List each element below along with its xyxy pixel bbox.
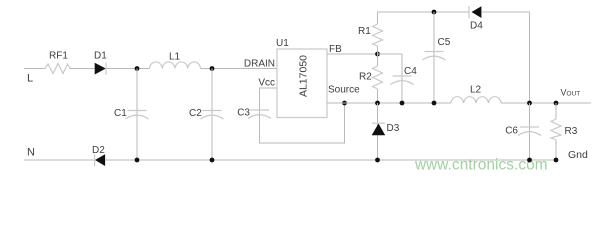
wire right drop to VOUT rail bbox=[529, 12, 531, 103]
resistor RF1 bbox=[45, 64, 70, 74]
svg-text:R1: R1 bbox=[358, 26, 371, 37]
junction dot C4 bottom bbox=[400, 101, 405, 106]
D3 cathode bar bbox=[372, 122, 385, 124]
capacitor C2 bbox=[201, 111, 224, 120]
resistor R3 bbox=[551, 119, 561, 140]
svg-text:U1: U1 bbox=[276, 38, 289, 49]
junction dot C5 bottom bbox=[432, 101, 437, 106]
svg-text:DRAIN: DRAIN bbox=[244, 59, 275, 70]
svg-text:Source: Source bbox=[328, 85, 360, 96]
wire L1 to DRAIN pin bbox=[201, 68, 278, 70]
capacitor C6 bbox=[518, 127, 541, 136]
junction dot C2 bottom bbox=[210, 158, 215, 163]
junction dot C1 bottom bbox=[135, 158, 140, 163]
wire FB pin to R1/R2 node bbox=[327, 53, 378, 55]
resistor R1 bbox=[373, 24, 383, 46]
D1 cathode bar bbox=[105, 63, 107, 75]
top rail D4 to right corner bbox=[481, 11, 529, 13]
svg-text:R2: R2 bbox=[359, 72, 372, 83]
junction dot C3 return on Source wire bbox=[342, 101, 347, 106]
svg-text:AL17050: AL17050 bbox=[298, 55, 310, 97]
inductor L2 bbox=[451, 97, 501, 103]
svg-text:C5: C5 bbox=[438, 37, 451, 48]
svg-text:N: N bbox=[27, 147, 35, 159]
junction dot D3 bottom bbox=[375, 158, 380, 163]
wire Source pin to L2 bbox=[327, 102, 451, 104]
svg-text:C1: C1 bbox=[114, 108, 127, 119]
capacitor C3 bbox=[248, 110, 271, 119]
resistor R1 branch wire bbox=[377, 12, 379, 24]
svg-text:D4: D4 bbox=[470, 21, 483, 32]
wire L2 to VOUT bbox=[501, 102, 591, 104]
svg-text:D3: D3 bbox=[387, 123, 400, 134]
capacitor C6 branch wire bbox=[529, 103, 531, 160]
svg-text:RF1: RF1 bbox=[49, 51, 68, 62]
D2 cathode bar bbox=[94, 154, 96, 166]
wire N to D2 bbox=[24, 159, 95, 161]
svg-text:FB: FB bbox=[329, 44, 342, 55]
inductor L1 bbox=[150, 62, 201, 69]
wire FB node to C4 bbox=[378, 54, 403, 103]
capacitor C2 branch wire bbox=[211, 69, 213, 161]
junction dot C2 top bbox=[210, 66, 215, 71]
svg-text:L2: L2 bbox=[470, 85, 482, 96]
wire D1 to L1 bbox=[106, 68, 150, 70]
svg-text:Gnd: Gnd bbox=[568, 149, 588, 161]
D4 cathode bar bbox=[468, 6, 470, 18]
capacitor C5 branch wire bbox=[433, 12, 435, 103]
svg-text:L: L bbox=[27, 73, 33, 85]
top rail from R1 to D4 bbox=[377, 11, 469, 13]
resistor R2 bbox=[373, 66, 383, 89]
junction dot FB node bbox=[375, 52, 380, 57]
op-amp U1 body bbox=[277, 49, 327, 118]
capacitor C4 bbox=[391, 76, 414, 85]
capacitor C5 bbox=[423, 52, 446, 61]
junction dot R3 bottom bbox=[554, 158, 559, 163]
svg-text:C3: C3 bbox=[237, 108, 250, 119]
resistor R3 branch wire bbox=[555, 103, 557, 119]
svg-text:Vcc: Vcc bbox=[258, 78, 275, 89]
junction dot C5 top bbox=[432, 10, 437, 15]
wire RF1 to D1 bbox=[70, 68, 95, 70]
junction dot C1 top bbox=[135, 66, 140, 71]
junction dot R3 top bbox=[554, 101, 559, 106]
resistor R2 branch wire bbox=[377, 54, 379, 66]
wire L to RF1 bbox=[24, 68, 45, 70]
diode D3 bbox=[372, 124, 386, 136]
svg-text:C2: C2 bbox=[189, 108, 202, 119]
wire D2 to Gnd rail bbox=[105, 159, 556, 161]
svg-text:C4: C4 bbox=[404, 66, 417, 77]
svg-text:C6: C6 bbox=[505, 126, 518, 137]
svg-text:R3: R3 bbox=[565, 126, 578, 137]
wire Vcc pin to C3 and around to Source bbox=[260, 88, 345, 143]
svg-text:D1: D1 bbox=[94, 51, 107, 62]
junction dot R2/D3 bbox=[375, 101, 380, 106]
svg-text:D2: D2 bbox=[92, 145, 105, 156]
diode D2 bbox=[95, 154, 105, 166]
capacitor C1 branch wire bbox=[136, 69, 138, 161]
capacitor C1 bbox=[126, 111, 149, 120]
svg-text:L1: L1 bbox=[169, 52, 181, 63]
diode D1 bbox=[95, 63, 106, 75]
diode D3 branch wire bbox=[377, 103, 379, 160]
junction dot C6 bottom bbox=[527, 158, 532, 163]
diode D4 bbox=[472, 6, 482, 18]
junction dot C6 top bbox=[527, 101, 532, 106]
